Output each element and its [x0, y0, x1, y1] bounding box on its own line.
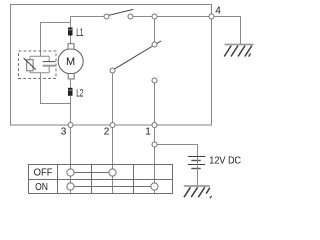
- OFF row contact terminal 2: [109, 169, 116, 176]
- wire node 3 to switch table: [70, 128, 72, 194]
- suppressor bottom bus wire: [30, 72, 49, 74]
- table column divider 1: [57, 165, 59, 194]
- suppressor dashed enclosure: [19, 51, 57, 79]
- selector S2 blade: [115, 41, 162, 69]
- node 1: [152, 123, 157, 128]
- node 4: [209, 14, 214, 19]
- wire L1 to motor: [70, 36, 72, 44]
- svg-text:M: M: [66, 56, 75, 68]
- suppressor top bus wire: [30, 55, 49, 57]
- chassis ground (battery): [184, 186, 212, 198]
- capacitor C1: [43, 56, 56, 72]
- wire from S1 to junction: [133, 16, 152, 18]
- svg-text:2: 2: [104, 126, 110, 137]
- wire node 1 to junction: [154, 128, 156, 143]
- switch S1 terminal right: [128, 14, 133, 19]
- switch position table frame: [29, 165, 173, 194]
- svg-text:OFF: OFF: [34, 168, 53, 179]
- motor M1: [58, 49, 83, 74]
- wire S2 right contact to node 1: [154, 83, 156, 125]
- wire motor branch top: [70, 17, 72, 28]
- OFF row contact terminal 3: [67, 169, 74, 176]
- enclosure box (outer unit boundary): [11, 5, 212, 126]
- node 3: [68, 123, 73, 128]
- wire node 4 to chassis ground: [214, 17, 241, 45]
- selector S2 right contact: [152, 78, 157, 83]
- wire top feed from motor branch to switch S1: [71, 16, 105, 18]
- table row divider: [29, 179, 173, 181]
- table column divider 3: [133, 165, 135, 194]
- choke L1: [68, 28, 73, 36]
- varistor RV1: [24, 56, 36, 72]
- switch S1 blade (open): [109, 9, 134, 15]
- wire node 2 to switch table: [112, 128, 114, 194]
- svg-text:12V DC: 12V DC: [209, 155, 241, 166]
- svg-text:L2: L2: [76, 88, 83, 100]
- wire battery to ground: [197, 169, 199, 187]
- svg-text:ON: ON: [35, 182, 48, 193]
- svg-text:3: 3: [61, 126, 67, 137]
- table column divider 2: [91, 165, 93, 194]
- motor M1 bottom terminal: [68, 74, 74, 80]
- ON row contact terminal 3: [67, 183, 74, 190]
- battery BT1: [188, 157, 205, 169]
- ON row contact link wire: [74, 186, 151, 188]
- chassis ground (top right): [224, 45, 253, 57]
- wire from junction to node 4: [157, 16, 209, 18]
- ON row contact terminal 1: [151, 183, 158, 190]
- svg-text:1: 1: [145, 126, 151, 137]
- OFF row contact link wire: [74, 172, 109, 174]
- wire S2 left contact to node 2: [112, 73, 114, 125]
- junction node on top wire: [152, 14, 157, 19]
- wire branch to suppressor network: [41, 23, 71, 57]
- selector S2 left contact: [110, 68, 115, 73]
- wire junction to switch table: [154, 147, 156, 194]
- choke L2: [68, 88, 73, 96]
- wire motor to L2: [70, 79, 72, 88]
- node 2: [110, 123, 115, 128]
- wire suppressor to motor branch: [41, 73, 71, 104]
- svg-text:L1: L1: [76, 27, 83, 39]
- wire junction to battery: [157, 145, 198, 157]
- wire L2 to node 3: [70, 96, 72, 125]
- switch S1 terminal left: [104, 14, 109, 19]
- selector S2 common terminal: [152, 42, 157, 47]
- motor M1 top terminal: [68, 44, 74, 49]
- wire junction down to selector switch S2: [154, 19, 156, 42]
- svg-text:4: 4: [215, 6, 221, 17]
- junction on node 1 wire: [152, 142, 157, 147]
